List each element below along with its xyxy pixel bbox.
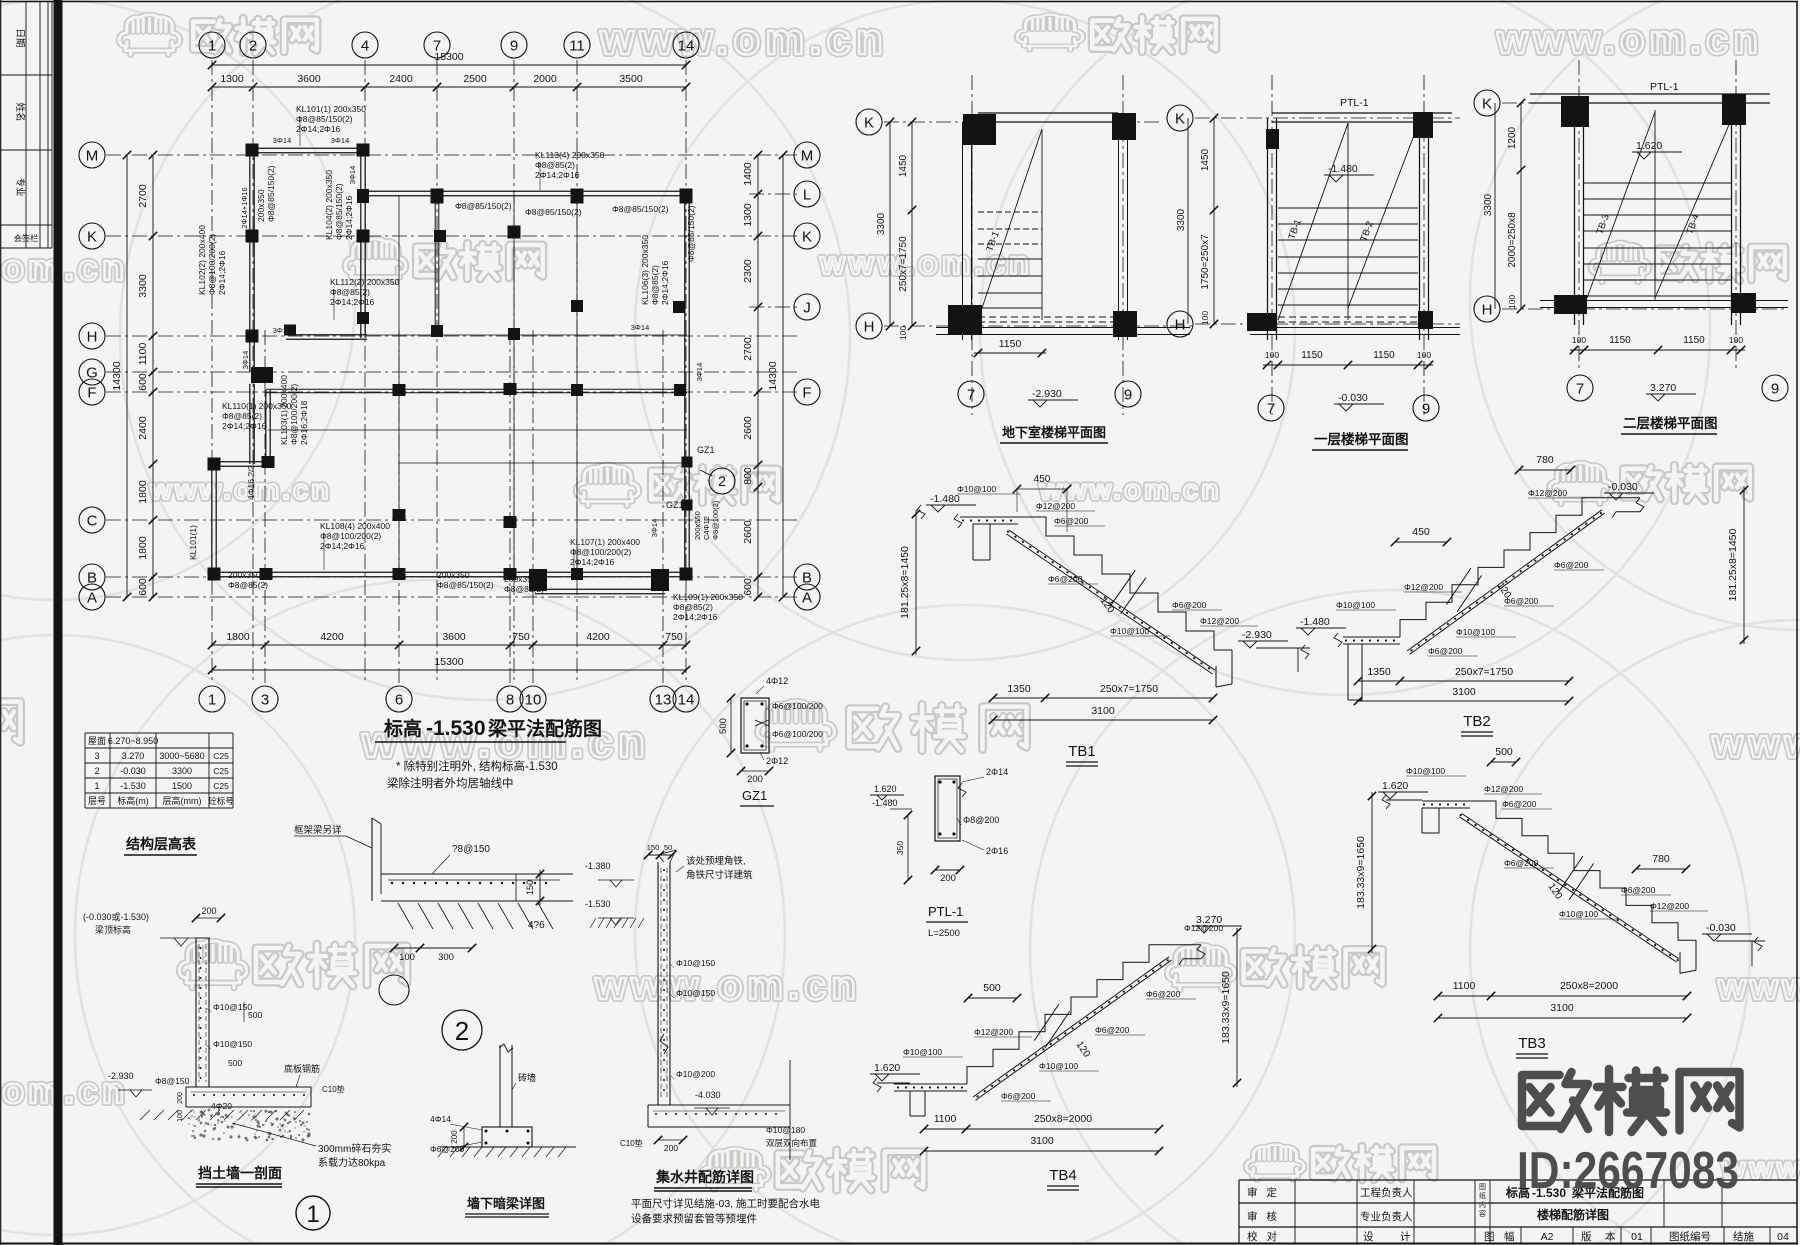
svg-text:1.620: 1.620 — [1636, 140, 1662, 152]
svg-text:3.270: 3.270 — [1650, 382, 1676, 394]
svg-text:1.620: 1.620 — [874, 784, 897, 794]
axis bubbles top — [199, 32, 225, 58]
svg-text:平面尺寸详见结施-03, 施工时要配合水电: 平面尺寸详见结施-03, 施工时要配合水电 — [631, 1197, 821, 1210]
svg-text:1800: 1800 — [226, 631, 250, 643]
svg-text:结构层高表: 结构层高表 — [126, 836, 197, 852]
svg-text:250x7=1750: 250x7=1750 — [1100, 683, 1158, 695]
svg-text:结施: 结施 — [1733, 1230, 1755, 1243]
svg-text:PTL-1: PTL-1 — [928, 904, 963, 919]
stair plan 3: 二层楼梯平面图 — [1474, 90, 1500, 116]
svg-text:4Φ14: 4Φ14 — [430, 1114, 451, 1124]
svg-text:350: 350 — [895, 841, 905, 855]
svg-text:2Φ14+1Φ16: 2Φ14+1Φ16 — [240, 187, 249, 228]
svg-text:Φ10@200: Φ10@200 — [676, 1069, 715, 1079]
svg-text:F: F — [87, 384, 96, 401]
svg-text:4200: 4200 — [586, 631, 610, 643]
svg-text:500: 500 — [983, 982, 1001, 994]
svg-text:Φ10@100: Φ10@100 — [1336, 600, 1375, 610]
svg-text:3300: 3300 — [876, 212, 887, 235]
svg-text:Φ6@100/200: Φ6@100/200 — [772, 729, 823, 739]
svg-text:1100: 1100 — [137, 343, 149, 366]
svg-text:1100: 1100 — [1453, 980, 1476, 992]
svg-text:100: 100 — [1507, 295, 1517, 309]
svg-text:780: 780 — [1536, 454, 1554, 466]
svg-text:角铁尺寸详建筑: 角铁尺寸详建筑 — [686, 869, 753, 881]
svg-text:100: 100 — [399, 952, 415, 963]
svg-text:3Φ14: 3Φ14 — [650, 519, 659, 538]
svg-text:专业: 专业 — [14, 177, 26, 196]
svg-text:Φ6@200: Φ6@200 — [1428, 646, 1463, 656]
svg-text:300: 300 — [438, 952, 454, 963]
svg-text:-2.930: -2.930 — [108, 1071, 134, 1081]
svg-text:www.om.cn: www.om.cn — [1496, 18, 1763, 62]
stair plan 2: 一层楼梯平面图 — [1167, 105, 1193, 131]
svg-text:Φ8@85/150(2): Φ8@85/150(2) — [612, 204, 669, 214]
svg-text:会签栏: 会签栏 — [14, 233, 39, 243]
right dimension rows — [757, 155, 759, 597]
svg-text:层号: 层号 — [88, 796, 106, 806]
svg-text:Φ10@100: Φ10@100 — [957, 484, 996, 494]
svg-text:双层双向布置: 双层双向布置 — [766, 1138, 818, 1148]
svg-text:3Φ14: 3Φ14 — [331, 136, 350, 145]
bottom dimension rows — [212, 644, 686, 646]
svg-text:-1.480: -1.480 — [930, 493, 960, 505]
svg-text:4200: 4200 — [320, 631, 344, 643]
svg-text:框架梁另详: 框架梁另详 — [294, 824, 342, 836]
svg-text:砖墙: 砖墙 — [518, 1072, 536, 1083]
svg-text:10: 10 — [525, 691, 542, 708]
svg-text:本: 本 — [1605, 1230, 1616, 1243]
svg-text:2300: 2300 — [742, 259, 754, 283]
svg-text:C10垫: C10垫 — [620, 1138, 643, 1148]
svg-text:2400: 2400 — [137, 416, 149, 440]
svg-text:200: 200 — [940, 873, 956, 884]
svg-text:2000=250x8: 2000=250x8 — [1507, 212, 1518, 268]
svg-text:-1.480: -1.480 — [1300, 616, 1330, 628]
svg-text:Φ10@100: Φ10@100 — [1456, 627, 1495, 637]
svg-text:姓名: 姓名 — [14, 102, 26, 121]
svg-text:对: 对 — [1267, 1230, 1278, 1243]
svg-text:181.25x8=1450: 181.25x8=1450 — [1727, 528, 1739, 601]
svg-text:3000~5680: 3000~5680 — [159, 751, 204, 761]
svg-text:Φ12@200: Φ12@200 — [1404, 582, 1443, 592]
svg-text:Φ6@200: Φ6@200 — [1172, 600, 1207, 610]
svg-text:Φ12@200: Φ12@200 — [1184, 923, 1223, 933]
svg-text:审: 审 — [1247, 1186, 1258, 1199]
svg-text:50: 50 — [664, 843, 672, 852]
svg-text:200: 200 — [664, 1143, 678, 1153]
svg-text:2600: 2600 — [742, 416, 754, 440]
svg-text:1800: 1800 — [137, 480, 149, 504]
svg-text:6.270~8.950: 6.270~8.950 — [108, 736, 158, 746]
svg-text:1350: 1350 — [1007, 683, 1031, 695]
svg-text:Φ10@100: Φ10@100 — [1110, 626, 1149, 636]
svg-text:6: 6 — [395, 691, 403, 708]
svg-text:1150: 1150 — [1301, 350, 1323, 361]
svg-text:500: 500 — [1495, 746, 1513, 758]
svg-text:100: 100 — [898, 326, 908, 340]
svg-text:Φ10@100: Φ10@100 — [1559, 909, 1598, 919]
left dimension rows — [126, 155, 128, 597]
stair section TB2 — [1343, 636, 1400, 638]
secondary beam lines — [398, 196, 400, 573]
svg-text:Φ8@85/150(2): Φ8@85/150(2) — [455, 201, 512, 211]
svg-text:Φ12@200: Φ12@200 — [1650, 901, 1689, 911]
svg-text:www.om.cn: www.om.cn — [149, 474, 332, 505]
svg-text:600: 600 — [137, 373, 149, 391]
svg-text:11: 11 — [569, 37, 585, 54]
svg-text:M: M — [86, 147, 99, 164]
svg-text:183.33x9=1650: 183.33x9=1650 — [1220, 971, 1232, 1044]
svg-text:1300: 1300 — [742, 203, 754, 227]
svg-text:挡土墙一剖面: 挡土墙一剖面 — [198, 1165, 282, 1181]
svg-text:2000: 2000 — [533, 73, 557, 85]
svg-text:Φ10@100: Φ10@100 — [1039, 1061, 1078, 1071]
watermarks — [119, 15, 179, 55]
svg-text:181.25x8=1450: 181.25x8=1450 — [899, 546, 911, 619]
svg-text:Φ8@85/150(2): Φ8@85/150(2) — [686, 205, 696, 262]
svg-text:Φ8@150: Φ8@150 — [155, 1076, 190, 1086]
svg-text:Φ6@200: Φ6@200 — [1054, 516, 1089, 526]
svg-text:3: 3 — [94, 751, 99, 761]
svg-text:1150: 1150 — [1609, 335, 1631, 346]
svg-text:500: 500 — [228, 1058, 242, 1068]
svg-text:3100: 3100 — [1091, 705, 1115, 717]
svg-text:* 除特别注明外, 结构标高-1.530: * 除特别注明外, 结构标高-1.530 — [396, 759, 558, 773]
svg-text:183.33x9=1650: 183.33x9=1650 — [1355, 836, 1367, 909]
svg-text:3100: 3100 — [1452, 686, 1476, 698]
svg-text:4Φ12: 4Φ12 — [766, 676, 788, 686]
svg-text:3300: 3300 — [172, 766, 192, 776]
svg-text:3600: 3600 — [297, 73, 321, 85]
svg-text:1500: 1500 — [172, 781, 192, 791]
svg-text:1400: 1400 — [742, 162, 754, 186]
svg-text:C10垫: C10垫 — [322, 1084, 345, 1094]
svg-text:200: 200 — [747, 774, 763, 785]
svg-text:-0.030: -0.030 — [1706, 922, 1736, 934]
stair plan 1: 地下室楼梯平面图 — [856, 109, 882, 135]
svg-text:200: 200 — [450, 1130, 459, 1144]
svg-text:-1.530: -1.530 — [426, 717, 486, 740]
svg-text:1150: 1150 — [1373, 350, 1395, 361]
svg-text:300mm碎石夯实: 300mm碎石夯实 — [318, 1142, 391, 1155]
plan columns — [246, 144, 259, 157]
top dimension rows — [212, 64, 686, 66]
svg-text:A2: A2 — [1541, 1231, 1554, 1243]
svg-text:100: 100 — [1729, 335, 1743, 345]
svg-text:Φ10@150: Φ10@150 — [213, 1002, 252, 1012]
svg-text:1: 1 — [208, 691, 216, 708]
svg-text:Φ8@200: Φ8@200 — [963, 815, 999, 825]
svg-text:200: 200 — [177, 1092, 184, 1104]
svg-text:-0.030: -0.030 — [1338, 392, 1368, 404]
svg-text:800: 800 — [742, 467, 754, 485]
svg-text:1450: 1450 — [1200, 148, 1211, 171]
svg-text:Φ10@150: Φ10@150 — [676, 988, 715, 998]
svg-text:2Φ16: 2Φ16 — [986, 846, 1008, 856]
stair section TB3 — [1386, 799, 1422, 801]
svg-text:3300: 3300 — [1176, 208, 1187, 231]
svg-text:600: 600 — [742, 578, 754, 596]
svg-text:750: 750 — [665, 631, 683, 643]
svg-text:7: 7 — [1267, 400, 1275, 417]
svg-text:3: 3 — [261, 691, 269, 708]
svg-text:Φ12@200: Φ12@200 — [1200, 616, 1239, 626]
svg-text:www.om.cn: www.om.cn — [1717, 966, 1800, 1007]
svg-text:K: K — [802, 228, 812, 245]
decorative arcs — [120, 0, 850, 700]
svg-text:www.om.cn: www.om.cn — [594, 964, 861, 1008]
svg-text:墙下暗梁详图: 墙下暗梁详图 — [467, 1196, 545, 1211]
stair section TB4 — [877, 1082, 910, 1084]
svg-text:H: H — [87, 328, 98, 345]
svg-text:一层楼梯平面图: 一层楼梯平面图 — [1314, 431, 1409, 447]
svg-text:250x8=2000: 250x8=2000 — [1560, 980, 1618, 992]
svg-text:14300: 14300 — [767, 361, 779, 390]
svg-text:1150: 1150 — [1683, 335, 1705, 346]
svg-text:1.620: 1.620 — [874, 1062, 900, 1074]
svg-text:Φ12@200: Φ12@200 — [974, 1027, 1013, 1037]
axis bubbles bottom — [199, 686, 225, 712]
svg-text:3Φ14: 3Φ14 — [273, 326, 292, 335]
svg-text:PTL-1: PTL-1 — [1650, 81, 1679, 93]
svg-text:Φ10@150: Φ10@150 — [676, 958, 715, 968]
svg-text:-2.930: -2.930 — [1032, 388, 1062, 400]
svg-text:2400: 2400 — [389, 73, 413, 85]
svg-text:-1.480: -1.480 — [1328, 163, 1358, 175]
svg-text:标高: 标高 — [384, 717, 422, 740]
svg-text:250x8=2000: 250x8=2000 — [1034, 1113, 1092, 1125]
svg-text:150: 150 — [525, 880, 535, 895]
svg-text:600: 600 — [137, 578, 149, 596]
svg-text:250x7=1750: 250x7=1750 — [898, 236, 909, 292]
svg-text:1150: 1150 — [999, 338, 1022, 350]
svg-text:500: 500 — [718, 718, 729, 734]
svg-text:楼梯配筋详图: 楼梯配筋详图 — [1537, 1207, 1609, 1222]
svg-text:专业负责人: 专业负责人 — [1360, 1210, 1413, 1223]
svg-text:3100: 3100 — [1030, 1135, 1054, 1147]
svg-text:ID:2667083: ID:2667083 — [1517, 1142, 1739, 1200]
svg-text:KL101(1): KL101(1) — [188, 525, 198, 560]
svg-text:1: 1 — [208, 37, 216, 54]
svg-text:梁除注明者外均居轴线中: 梁除注明者外均居轴线中 — [387, 776, 514, 790]
svg-text:GZ1: GZ1 — [697, 445, 715, 455]
svg-text:K: K — [87, 228, 97, 245]
svg-text:C25: C25 — [213, 781, 229, 791]
svg-text:450: 450 — [1412, 526, 1430, 538]
svg-text:750: 750 — [512, 631, 530, 643]
svg-text:3Φ14: 3Φ14 — [273, 136, 292, 145]
svg-text:?8@150: ?8@150 — [452, 844, 490, 855]
svg-text:Φ6@200: Φ6@200 — [430, 1144, 465, 1154]
svg-text:设: 设 — [1363, 1231, 1374, 1243]
svg-text:Φ6@200: Φ6@200 — [1621, 885, 1656, 895]
svg-text:200: 200 — [201, 906, 216, 916]
svg-text:4Φ20: 4Φ20 — [211, 1101, 232, 1111]
svg-text:M: M — [801, 147, 814, 164]
svg-text:底板钢筋: 底板钢筋 — [284, 1063, 320, 1074]
svg-text:14300: 14300 — [111, 361, 123, 390]
svg-text:梁平法配筋图: 梁平法配筋图 — [487, 717, 602, 740]
svg-text:F: F — [802, 384, 811, 401]
svg-text:Φ6@200: Φ6@200 — [1504, 858, 1539, 868]
svg-text:2Φ12: 2Φ12 — [766, 756, 788, 766]
svg-text:13: 13 — [655, 691, 672, 708]
svg-text:14: 14 — [678, 691, 695, 708]
svg-text:Φ6@200: Φ6@200 — [1048, 574, 1083, 584]
svg-text:图纸编号: 图纸编号 — [1669, 1230, 1711, 1243]
svg-text:H: H — [1482, 301, 1493, 318]
svg-text:150: 150 — [647, 843, 660, 852]
svg-text:-1.530: -1.530 — [585, 899, 611, 909]
svg-text:二层楼梯平面图: 二层楼梯平面图 — [1623, 415, 1718, 431]
svg-text:2600: 2600 — [742, 520, 754, 544]
svg-text:校: 校 — [1247, 1230, 1258, 1243]
svg-text:2Φ14: 2Φ14 — [986, 767, 1008, 777]
svg-text:定: 定 — [1267, 1186, 1278, 1199]
svg-text:Φ6@200: Φ6@200 — [1504, 596, 1539, 606]
svg-text:4: 4 — [361, 37, 369, 54]
svg-text:Φ6@200: Φ6@200 — [1001, 1091, 1036, 1101]
svg-text:-0.030: -0.030 — [120, 766, 146, 776]
svg-text:Φ8@85/150(2): Φ8@85/150(2) — [525, 207, 582, 217]
svg-text:1100: 1100 — [934, 1113, 957, 1125]
svg-text:1450: 1450 — [898, 154, 909, 177]
svg-text:3.270: 3.270 — [122, 751, 145, 761]
svg-text:L: L — [803, 186, 811, 203]
svg-text:3500: 3500 — [619, 73, 643, 85]
svg-text:H: H — [1175, 316, 1186, 333]
svg-text:2700: 2700 — [742, 337, 754, 361]
svg-text:3Φ14: 3Φ14 — [631, 323, 650, 332]
svg-text:Φ10@150: Φ10@150 — [213, 1039, 252, 1049]
svg-text:(-0.030或-1.530): (-0.030或-1.530) — [83, 911, 149, 922]
svg-text:2: 2 — [718, 473, 726, 489]
svg-text:设备要求预留套管等预埋件: 设备要求预留套管等预埋件 — [631, 1212, 757, 1225]
svg-text:7: 7 — [967, 386, 975, 403]
svg-text:Φ12@200: Φ12@200 — [1528, 488, 1567, 498]
svg-text:14: 14 — [678, 37, 695, 54]
svg-text:1: 1 — [94, 781, 99, 791]
svg-text:1800: 1800 — [137, 536, 149, 560]
svg-text:4Φ16 2/2: 4Φ16 2/2 — [246, 465, 256, 500]
svg-text:9: 9 — [1124, 386, 1132, 403]
svg-text:该处预埋角铁,: 该处预埋角铁, — [686, 855, 746, 867]
svg-text:计: 计 — [1400, 1230, 1411, 1243]
svg-text:3300: 3300 — [137, 274, 149, 298]
svg-text:A: A — [87, 589, 97, 606]
svg-text:J: J — [803, 299, 811, 316]
svg-text:工程负责人: 工程负责人 — [1360, 1186, 1413, 1199]
svg-text:500: 500 — [248, 1010, 262, 1020]
svg-text:地下室楼梯平面图: 地下室楼梯平面图 — [1002, 425, 1106, 440]
svg-text:1200: 1200 — [1507, 126, 1518, 149]
svg-text:Φ10@100: Φ10@100 — [1406, 766, 1445, 776]
svg-text:-0.030: -0.030 — [1608, 481, 1638, 493]
svg-text:GZ1: GZ1 — [666, 500, 684, 510]
svg-text:-1.380: -1.380 — [585, 861, 611, 871]
left frame thick band — [54, 0, 63, 1245]
svg-text:100: 100 — [1572, 335, 1586, 345]
结构层高表 structure level table — [85, 732, 233, 734]
svg-text:8: 8 — [506, 691, 514, 708]
svg-text:-2.930: -2.930 — [1242, 629, 1272, 641]
svg-text:2700: 2700 — [137, 184, 149, 208]
svg-text:TB4: TB4 — [1049, 1167, 1077, 1184]
svg-text:100: 100 — [177, 1110, 184, 1122]
svg-text:100: 100 — [1417, 350, 1431, 360]
svg-text:4?6: 4?6 — [528, 920, 545, 931]
svg-text:Φ10@180: Φ10@180 — [766, 1125, 805, 1135]
svg-text:01: 01 — [1631, 1231, 1643, 1243]
svg-text:C25: C25 — [213, 766, 229, 776]
signature strip table — [25, 2, 27, 248]
svg-text:3300: 3300 — [1483, 193, 1494, 216]
svg-text:TB3: TB3 — [1518, 1035, 1546, 1052]
svg-text:K: K — [1482, 95, 1492, 112]
svg-text:Φ10@100: Φ10@100 — [903, 1047, 942, 1057]
svg-text:450: 450 — [1034, 474, 1051, 485]
svg-text:9: 9 — [510, 37, 518, 54]
svg-text:GZ1: GZ1 — [742, 788, 767, 803]
svg-text:屋面: 屋面 — [88, 736, 106, 746]
axis bubbles left — [79, 142, 105, 168]
svg-text:1300: 1300 — [220, 73, 244, 85]
title block — [1239, 1179, 1797, 1181]
svg-text:9: 9 — [1422, 400, 1430, 417]
svg-text:3Φ14: 3Φ14 — [241, 351, 250, 370]
svg-text:日期: 日期 — [14, 28, 25, 47]
svg-text:2: 2 — [249, 37, 257, 54]
svg-text:TB1: TB1 — [1068, 743, 1096, 760]
svg-text:H: H — [864, 318, 875, 335]
svg-text:www.om.cn: www.om.cn — [599, 15, 888, 64]
svg-text:系载力达80kpa: 系载力达80kpa — [318, 1156, 386, 1169]
stair section TB1 — [960, 516, 1018, 518]
svg-text:图: 图 — [1484, 1231, 1495, 1243]
svg-text:A: A — [802, 589, 812, 606]
axis bubbles right — [794, 142, 820, 168]
svg-text:-1.530: -1.530 — [120, 781, 146, 791]
grid lines — [211, 60, 213, 684]
svg-text:04: 04 — [1777, 1231, 1789, 1243]
svg-text:1.620: 1.620 — [1382, 780, 1408, 792]
svg-text:15300: 15300 — [434, 656, 463, 668]
walls (double-line beams) — [250, 147, 367, 149]
svg-text:1350: 1350 — [1367, 666, 1391, 678]
svg-text:Φ6@100/200: Φ6@100/200 — [772, 701, 823, 711]
svg-text:3100: 3100 — [1550, 1002, 1574, 1014]
svg-text:-1.480: -1.480 — [872, 798, 898, 808]
big watermark 欧模网 ID — [1522, 1072, 1588, 1129]
svg-text:集水井配筋详图: 集水井配筋详图 — [655, 1169, 754, 1185]
svg-text:7: 7 — [1576, 380, 1584, 397]
svg-text:3Φ14: 3Φ14 — [348, 166, 357, 185]
svg-text:版: 版 — [1581, 1230, 1592, 1243]
page border frame — [0, 1, 1798, 3]
svg-text:Φ6@200: Φ6@200 — [1554, 560, 1589, 570]
svg-text:15300: 15300 — [434, 51, 463, 63]
svg-text:2500: 2500 — [463, 73, 487, 85]
svg-text:100: 100 — [1200, 311, 1210, 325]
svg-text:幅: 幅 — [1504, 1230, 1515, 1243]
svg-text:3600: 3600 — [442, 631, 466, 643]
svg-text:Φ12@200: Φ12@200 — [1036, 501, 1075, 511]
svg-text:L=2500: L=2500 — [928, 928, 960, 939]
svg-text:K: K — [864, 114, 874, 131]
svg-text:标高(m): 标高(m) — [117, 795, 149, 806]
svg-text:层高(mm): 层高(mm) — [163, 795, 202, 806]
